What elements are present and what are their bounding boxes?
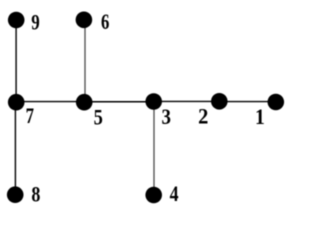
svg-text:6: 6: [101, 11, 110, 35]
node 5: [76, 94, 93, 111]
wire edge 7-8: [14, 102, 16, 195]
node 3: [145, 93, 162, 110]
svg-text:4: 4: [170, 183, 179, 207]
label 2: [198, 104, 208, 129]
svg-text:9: 9: [31, 11, 40, 35]
svg-text:7: 7: [26, 105, 35, 129]
svg-text:3: 3: [161, 106, 170, 130]
label 7: [26, 105, 35, 129]
wire edge 6-5: [84, 20, 86, 102]
node 1: [268, 94, 285, 111]
label 3: [161, 106, 170, 130]
node 7: [8, 94, 25, 111]
svg-text:5: 5: [94, 106, 103, 130]
svg-text:8: 8: [31, 183, 40, 207]
wire edge 5-3: [84, 101, 154, 103]
node 6: [76, 11, 93, 28]
label 9: [31, 11, 40, 35]
wire edge 3-4: [153, 102, 155, 196]
node 4: [145, 187, 162, 204]
svg-text:1: 1: [255, 104, 265, 129]
node 9: [8, 12, 25, 29]
svg-text:2: 2: [198, 104, 208, 129]
label 6: [101, 11, 110, 35]
wire edge 2-1: [219, 101, 275, 103]
wire edge 9-7: [15, 20, 17, 102]
wire edge 7-5: [16, 101, 84, 103]
wire edge 3-2: [154, 100, 220, 102]
label 4: [170, 183, 179, 207]
label 8: [31, 183, 40, 207]
node 8: [7, 186, 24, 203]
node 2: [211, 93, 228, 110]
label 1: [255, 104, 265, 129]
label 5: [94, 106, 103, 130]
